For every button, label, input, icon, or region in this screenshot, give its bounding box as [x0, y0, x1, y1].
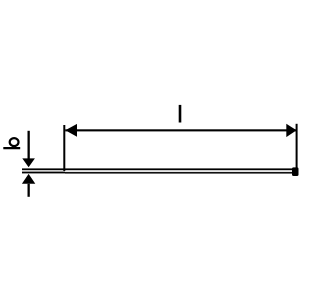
arrowhead l right [286, 124, 296, 137]
dimension line b lower part [28, 184, 30, 197]
bar top edge line [22, 168, 292, 170]
label b bowl [10, 138, 19, 146]
arrowhead b upper (points down) [22, 158, 35, 167]
label l [179, 105, 182, 123]
arrowhead b lower (points up) [22, 174, 35, 184]
label b (rotated) [3, 147, 20, 149]
extension line right (l) [296, 124, 298, 168]
extension line left (l) [63, 125, 65, 171]
bar bottom edge line (right of length origin) [65, 172, 292, 174]
arrowhead l left [65, 124, 77, 137]
dimension line b upper part [28, 131, 30, 159]
dimension line l [65, 129, 296, 131]
bar bottom edge line [22, 172, 65, 174]
head (black square at right end of bar) [292, 167, 299, 176]
